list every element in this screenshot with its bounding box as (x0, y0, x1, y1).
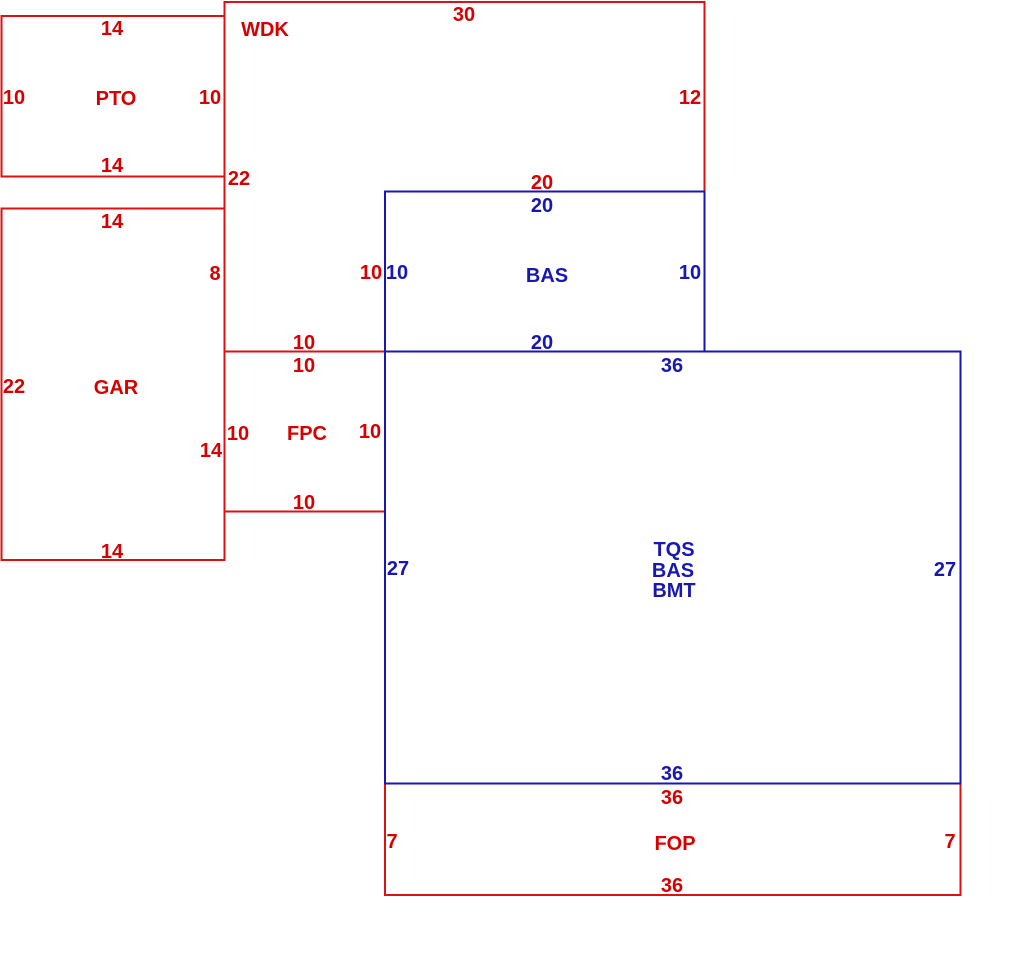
svg-text:20: 20 (531, 172, 553, 194)
svg-text:20: 20 (531, 195, 553, 217)
svg-text:10: 10 (3, 87, 25, 109)
area outline FOP (open porch) (385, 784, 961, 896)
svg-text:10: 10 (293, 332, 315, 354)
svg-text:BAS: BAS (526, 265, 568, 287)
svg-text:7: 7 (944, 831, 955, 853)
svg-text:8: 8 (209, 263, 220, 285)
svg-text:27: 27 (934, 559, 956, 581)
area outline PTO (patio) (2, 16, 225, 177)
svg-text:10: 10 (386, 262, 408, 284)
svg-text:30: 30 (453, 4, 475, 26)
svg-text:20: 20 (531, 332, 553, 354)
svg-text:FOP: FOP (654, 833, 695, 855)
svg-text:7: 7 (386, 831, 397, 853)
svg-text:36: 36 (661, 787, 683, 809)
svg-text:10: 10 (293, 492, 315, 514)
svg-text:10: 10 (227, 423, 249, 445)
svg-text:36: 36 (661, 875, 683, 897)
area outline TQS/BAS/BMT (main area) (385, 352, 961, 784)
svg-text:10: 10 (199, 87, 221, 109)
svg-text:WDK: WDK (241, 19, 289, 41)
svg-text:22: 22 (3, 376, 25, 398)
svg-text:GAR: GAR (94, 377, 139, 399)
svg-text:PTO: PTO (96, 88, 137, 110)
svg-text:10: 10 (359, 421, 381, 443)
svg-text:14: 14 (101, 211, 124, 233)
svg-text:10: 10 (679, 262, 701, 284)
svg-text:BMT: BMT (652, 580, 695, 602)
svg-text:10: 10 (360, 262, 382, 284)
area outline FPC (covered porch) (225, 352, 386, 512)
area outline GAR (garage) (2, 209, 225, 561)
svg-text:14: 14 (101, 155, 124, 177)
svg-text:10: 10 (293, 355, 315, 377)
svg-text:12: 12 (679, 87, 701, 109)
svg-text:14: 14 (101, 18, 124, 40)
svg-text:14: 14 (101, 541, 124, 563)
svg-text:TQS: TQS (653, 539, 694, 561)
svg-text:14: 14 (200, 440, 223, 462)
svg-text:BAS: BAS (652, 560, 694, 582)
svg-text:FPC: FPC (287, 423, 327, 445)
svg-text:22: 22 (228, 168, 250, 190)
area outline BAS (basement level) (385, 192, 705, 352)
svg-text:36: 36 (661, 355, 683, 377)
svg-text:36: 36 (661, 763, 683, 785)
area outline WDK (wood deck, L-shape) (225, 2, 705, 352)
svg-text:27: 27 (387, 558, 409, 580)
